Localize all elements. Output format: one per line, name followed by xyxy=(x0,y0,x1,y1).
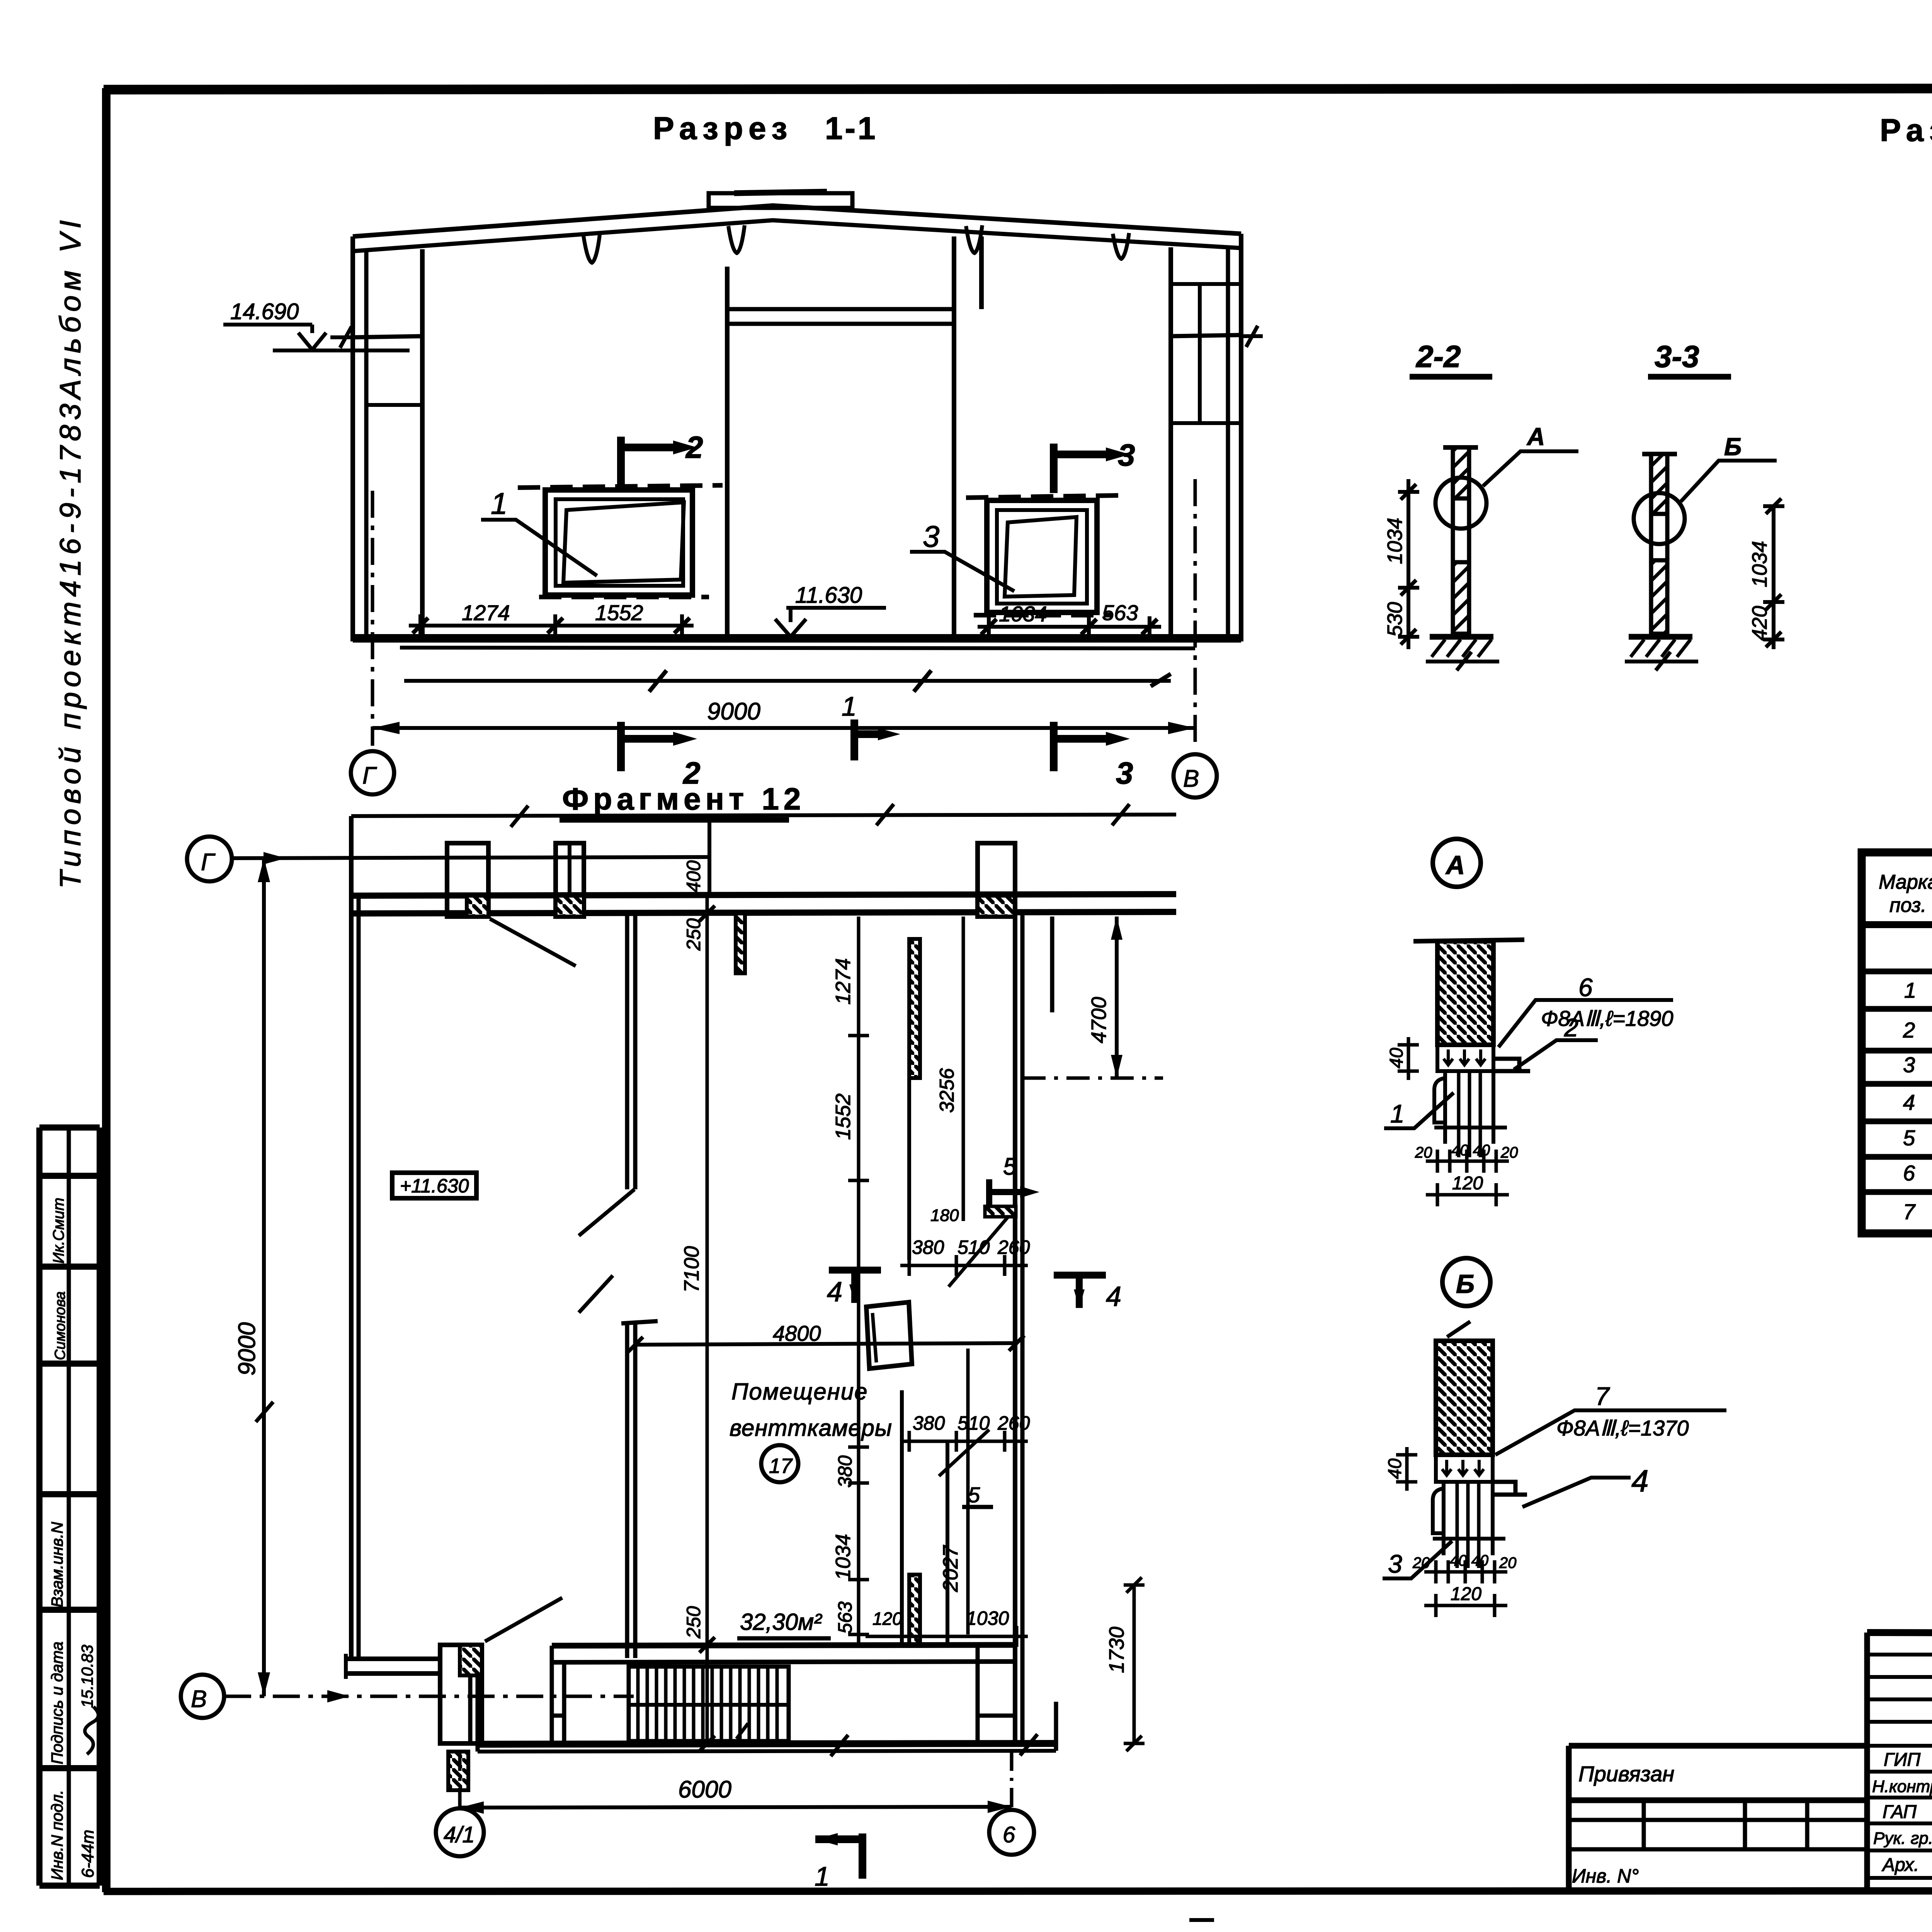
svg-text:32,30м²: 32,30м² xyxy=(740,1609,822,1635)
title underline xyxy=(560,817,789,823)
svg-text:40 40: 40 40 xyxy=(1451,1142,1490,1159)
right wall panel joint xyxy=(1171,284,1241,423)
right wall bottom edge xyxy=(1054,1702,1058,1751)
2-2 wall hatched lower xyxy=(1453,562,1469,634)
svg-text:380: 380 xyxy=(913,1412,945,1434)
axis В dashdot xyxy=(224,1695,634,1698)
floor slab bottom line xyxy=(400,648,1195,648)
svg-text:40: 40 xyxy=(1385,1458,1405,1479)
dim 6000 arrows xyxy=(460,1801,1012,1814)
section flag 2 top xyxy=(621,437,673,486)
detail B leader 7 xyxy=(1495,1410,1726,1455)
left attachment box Привязан xyxy=(1569,1746,1867,1891)
left margin rotated album text xyxy=(54,220,87,889)
3-3 wall middle xyxy=(1651,514,1667,560)
2-2 leader to А xyxy=(1483,451,1578,486)
table outer box xyxy=(1862,852,1932,1233)
dim 9000 vertical line xyxy=(262,858,266,1696)
svg-text:Н.контр.: Н.контр. xyxy=(1872,1777,1932,1796)
top wall lower line xyxy=(351,912,1176,913)
dim 4800 line xyxy=(635,1343,1017,1345)
left wall lintel line xyxy=(366,403,422,407)
window 3 inner frame xyxy=(997,510,1087,604)
section flag 3 bottom xyxy=(1054,722,1106,771)
svg-text:7: 7 xyxy=(1903,1199,1916,1224)
detail A dim 120 line xyxy=(1426,1183,1509,1206)
roof rib notch 1 xyxy=(583,235,600,263)
detail A mortar joint band xyxy=(1437,1045,1493,1071)
axis circle 4/1 xyxy=(436,1808,484,1856)
right wall outer line xyxy=(1239,234,1243,641)
bottom wall break slashes xyxy=(831,1734,1037,1756)
room circle 17 xyxy=(761,1445,798,1482)
section flag 2 bottom arrow xyxy=(673,732,697,746)
svg-text:Б: Б xyxy=(1724,433,1742,461)
axis В arrow xyxy=(327,1690,350,1702)
dim row A line xyxy=(900,1255,1028,1276)
leader to shaft xyxy=(939,1430,989,1476)
svg-text:1034: 1034 xyxy=(1748,541,1771,587)
svg-text:Инв. N°: Инв. N° xyxy=(1572,1865,1639,1887)
roof vent small cap xyxy=(734,192,827,193)
section flag 3 bottom arrow xyxy=(1106,732,1130,746)
detail A angle step xyxy=(1493,1059,1530,1071)
corridor end tick xyxy=(344,1654,348,1679)
svg-text:4700: 4700 xyxy=(1087,997,1111,1043)
dim row B line xyxy=(900,1431,1028,1452)
svg-text:Симонова: Симонова xyxy=(52,1291,68,1360)
svg-text:563: 563 xyxy=(1102,600,1138,625)
3-3 right dim arrows xyxy=(1766,498,1781,647)
svg-text:Марка: Марка xyxy=(1879,871,1932,893)
svg-text:3256: 3256 xyxy=(936,1068,958,1113)
dim chain left slashes xyxy=(413,618,690,633)
axis 4/1 dash xyxy=(458,1752,462,1807)
svg-text:20: 20 xyxy=(1499,1554,1517,1571)
svg-text:Типовой проект416-9-1783Альбом: Типовой проект416-9-1783Альбом VI xyxy=(54,220,87,889)
leader 3 to window3 xyxy=(910,552,1014,591)
svg-text:1730: 1730 xyxy=(1105,1627,1128,1673)
svg-text:Арх.: Арх. xyxy=(1881,1855,1919,1875)
column 2 inner line xyxy=(568,843,571,917)
chain x2222 ticks xyxy=(848,1036,869,1634)
dim 9000 line xyxy=(372,726,1195,730)
bottom wall upper band line2 xyxy=(552,1662,1015,1662)
svg-text:4/1: 4/1 xyxy=(444,1822,475,1847)
dim 2027 line xyxy=(966,1349,970,1634)
attachment grid xyxy=(1569,1800,1867,1849)
detail B top break xyxy=(1447,1321,1470,1337)
svg-text:Подпись и дата: Подпись и дата xyxy=(48,1641,66,1764)
right axis break mark xyxy=(1241,326,1263,347)
axis circle В xyxy=(1173,754,1217,798)
window 1 dashed axis bottom xyxy=(539,595,709,599)
table row lines xyxy=(1862,971,1932,1192)
dim 4800 slashes xyxy=(628,1335,1024,1352)
svg-text:15.10.83: 15.10.83 xyxy=(78,1645,96,1708)
svg-text:9000: 9000 xyxy=(234,1322,260,1376)
svg-text:250: 250 xyxy=(683,918,704,951)
roof bottom chord xyxy=(353,220,1241,251)
detail B leader 3 xyxy=(1383,1541,1452,1578)
left column face xyxy=(420,249,425,640)
flag 1 bottom arrow xyxy=(815,1833,838,1845)
top-right column 3 xyxy=(978,843,1015,917)
svg-text:563: 563 xyxy=(834,1601,856,1634)
svg-text:Инв.N подл.: Инв.N подл. xyxy=(48,1790,66,1880)
dim 9000 arrows xyxy=(258,858,270,1696)
svg-text:+11.630: +11.630 xyxy=(400,1175,469,1197)
dim 1730 line xyxy=(1133,1585,1136,1743)
svg-text:1274: 1274 xyxy=(462,600,510,625)
svg-text:260: 260 xyxy=(997,1412,1030,1434)
2-2 left dim line xyxy=(1406,479,1410,649)
svg-text:2: 2 xyxy=(1564,1013,1578,1042)
svg-text:1: 1 xyxy=(1390,1099,1405,1128)
level mark 14.690 line xyxy=(223,325,312,333)
elevation box +11.630 xyxy=(392,1173,476,1198)
axis circle Г xyxy=(351,751,394,794)
detail B dim 120 line xyxy=(1424,1594,1507,1617)
3-3 wall hatched upper xyxy=(1651,454,1667,514)
detail B hatched column xyxy=(1436,1341,1493,1455)
dim chain left vertical line xyxy=(706,896,709,1743)
left axis break mark xyxy=(330,327,353,348)
detail circle Б xyxy=(1442,1258,1490,1306)
column 2 hatch xyxy=(556,896,584,917)
left wall ledge line xyxy=(353,336,422,337)
dim 400 vertical stub xyxy=(707,816,711,896)
stamp signature squiggle xyxy=(85,1707,99,1754)
detail A bottom dim ticks xyxy=(1437,1150,1496,1173)
svg-text:5: 5 xyxy=(968,1483,980,1507)
border bottom xyxy=(104,1891,1932,1891)
svg-text:ГАП: ГАП xyxy=(1883,1802,1917,1822)
door leaf inner xyxy=(872,1313,876,1362)
detail A leader 1 xyxy=(1384,1093,1454,1128)
level mark line and arrow xyxy=(775,608,886,637)
svg-text:120: 120 xyxy=(872,1609,902,1629)
right pilaster stub xyxy=(1050,917,1054,1012)
2-2 detail circle on wall xyxy=(1435,478,1486,529)
svg-text:510: 510 xyxy=(957,1412,990,1434)
svg-text:2027: 2027 xyxy=(939,1545,962,1592)
svg-text:3: 3 xyxy=(1903,1053,1915,1077)
dim 1730 ticks xyxy=(1124,1577,1145,1751)
right wall ledge line xyxy=(1171,335,1241,336)
svg-text:40: 40 xyxy=(1386,1048,1407,1068)
interior shaft right wall xyxy=(954,236,981,638)
svg-text:А: А xyxy=(1526,423,1545,451)
dim 3256 line xyxy=(962,917,965,1221)
svg-text:1034: 1034 xyxy=(999,602,1047,626)
sign grid verticals xyxy=(1867,1633,1932,1891)
column 3 hatch xyxy=(978,896,1015,917)
svg-text:7100: 7100 xyxy=(680,1246,703,1293)
svg-text:Ик.Смит: Ик.Смит xyxy=(50,1198,67,1264)
svg-text:Б: Б xyxy=(1456,1269,1475,1299)
3-3 base hatch xyxy=(1631,639,1690,657)
2-2 wall hatched upper xyxy=(1453,447,1469,498)
svg-text:В: В xyxy=(191,1686,207,1713)
stairs mid line xyxy=(629,1703,789,1707)
detail B bottom dim line xyxy=(1424,1570,1507,1574)
detail A dim 40 xyxy=(1398,1037,1419,1080)
svg-text:180: 180 xyxy=(930,1206,959,1225)
svg-text:1: 1 xyxy=(491,486,507,520)
flag 4 left arrow xyxy=(849,1284,860,1303)
stair left wall xyxy=(552,1646,564,1743)
detail B joint arrows xyxy=(1442,1460,1484,1475)
leader 1 to window1 xyxy=(481,520,597,576)
3-3 right dim line xyxy=(1772,506,1776,649)
roof rib notch 3 xyxy=(966,225,982,253)
detail B lower stem xyxy=(1433,1482,1493,1555)
dim 9000 arrows xyxy=(372,722,1195,734)
svg-text:4800: 4800 xyxy=(773,1321,821,1345)
svg-text:Привязан: Привязан xyxy=(1578,1762,1674,1786)
upper-left column 2 xyxy=(556,843,584,917)
svg-text:1030: 1030 xyxy=(966,1607,1009,1629)
detail A stem bottom line xyxy=(1434,1126,1507,1129)
shaft wall line right xyxy=(946,1441,949,1645)
svg-text:1034: 1034 xyxy=(832,1534,855,1580)
axis Г dashdot xyxy=(371,491,374,746)
2-2 base line xyxy=(1430,634,1493,640)
svg-text:А: А xyxy=(1445,850,1465,880)
detail B rebar verticals xyxy=(1457,1482,1479,1568)
left stamp grid xyxy=(39,1128,100,1886)
ledge line left of wall xyxy=(273,349,410,352)
roof rib notch 4 xyxy=(1113,233,1129,259)
bottom wall upper band line1 xyxy=(552,1645,1015,1646)
bottom-left column outline xyxy=(440,1645,482,1743)
svg-text:380: 380 xyxy=(912,1236,944,1258)
svg-text:Фрагмент 12: Фрагмент 12 xyxy=(562,782,805,816)
detail A joint arrows xyxy=(1444,1049,1485,1065)
left wall outer line xyxy=(350,236,355,641)
shaft hatched wall lower xyxy=(909,1575,920,1645)
interior wall restart tick xyxy=(621,1321,658,1323)
interior wall left of shaft xyxy=(725,267,730,638)
small dash under titleblock xyxy=(1189,1918,1214,1922)
svg-text:В: В xyxy=(1183,765,1199,792)
window 1 inner frame xyxy=(556,499,683,586)
3-3 base line xyxy=(1629,634,1692,640)
svg-text:400: 400 xyxy=(683,860,704,893)
svg-text:Ф8АⅢ,ℓ=1890: Ф8АⅢ,ℓ=1890 xyxy=(1541,1006,1673,1031)
section flag 3 top arrow xyxy=(1106,447,1130,461)
detail B mortar joint band xyxy=(1436,1455,1493,1482)
svg-text:Разрез: Разрез xyxy=(653,111,793,146)
svg-text:Разрез: Разрез xyxy=(1880,113,1932,148)
roof top chord xyxy=(353,206,1241,236)
area underline xyxy=(737,1636,831,1641)
2-2 left dim slashes xyxy=(1401,484,1416,645)
flag 4 right arrow xyxy=(1074,1289,1085,1308)
shaft top beam xyxy=(727,309,954,324)
floor slab thick line xyxy=(353,634,1241,643)
column 1 hatch xyxy=(467,896,488,917)
interior stub wall hatched xyxy=(736,913,745,973)
svg-text:Ф8АⅢ,ℓ=1370: Ф8АⅢ,ℓ=1370 xyxy=(1556,1416,1689,1440)
2-2 base dim line xyxy=(1426,660,1499,663)
flag 1 top arrow xyxy=(878,728,900,740)
section flag 1 bottom xyxy=(815,1833,862,1879)
svg-text:1034: 1034 xyxy=(1383,518,1406,564)
3-3 wall hatched lower xyxy=(1651,560,1667,634)
2-2 left dim ticks xyxy=(1398,492,1419,637)
stairs treads xyxy=(638,1667,777,1741)
svg-text:1: 1 xyxy=(815,1861,830,1891)
svg-text:530: 530 xyxy=(1383,602,1406,637)
table header bottom line xyxy=(1862,921,1932,928)
svg-text:Помещение: Помещение xyxy=(731,1379,868,1405)
svg-text:17: 17 xyxy=(769,1454,793,1478)
sign grid empty rows xyxy=(1867,1655,1932,1746)
detail B leader 4 xyxy=(1522,1478,1631,1507)
dim chain x2222 xyxy=(857,917,861,1645)
svg-text:20: 20 xyxy=(1500,1144,1518,1161)
2-2 base break slash xyxy=(1457,652,1471,670)
3-3 leader to Б xyxy=(1681,461,1777,502)
window 1 dashed axis top xyxy=(518,485,723,488)
dim 6000 line xyxy=(460,1807,1012,1808)
corridor lines to left xyxy=(346,1659,440,1673)
2-2 base hatch xyxy=(1432,639,1492,657)
flag 5 mid arrowline xyxy=(1020,1186,1039,1198)
chain ticks xyxy=(697,896,718,1743)
sign grid name rows xyxy=(1867,1772,1932,1878)
svg-text:4: 4 xyxy=(827,1277,842,1308)
dim 4700 vertical xyxy=(1115,917,1119,1078)
bottom wall second line xyxy=(478,1751,1056,1752)
svg-text:9000: 9000 xyxy=(707,698,760,725)
svg-text:6-44т: 6-44т xyxy=(78,1830,97,1878)
dim chain right slashes xyxy=(981,619,1157,634)
plan top thin line xyxy=(351,815,1176,816)
svg-text:6000: 6000 xyxy=(678,1776,731,1803)
detail A top line xyxy=(1413,940,1524,941)
border left xyxy=(102,88,111,1892)
section flag 3 top xyxy=(1054,444,1106,493)
svg-text:2: 2 xyxy=(1903,1018,1915,1042)
3-3 base dim line xyxy=(1625,660,1698,663)
dim 120/1030 line xyxy=(866,1626,1028,1647)
svg-text:420: 420 xyxy=(1748,606,1771,641)
window 3 sash quad xyxy=(1005,517,1077,597)
stairs outline xyxy=(629,1667,789,1741)
dashdot right mid xyxy=(1022,1077,1163,1080)
right wall outer xyxy=(1013,843,1017,1743)
dim chain left ticks xyxy=(420,614,682,637)
window 3 outer frame xyxy=(987,500,1097,612)
detail B dim 40 xyxy=(1396,1447,1417,1491)
bottom wall left vertical xyxy=(470,1673,478,1752)
svg-text:3: 3 xyxy=(1118,438,1135,472)
bottom wall thick line xyxy=(478,1743,1056,1744)
3-3 detail circle on wall xyxy=(1634,493,1685,544)
axis В dashdot xyxy=(1194,479,1197,750)
section flag 4 right xyxy=(1054,1275,1106,1308)
detail B bottom dim ticks xyxy=(1436,1560,1495,1583)
detail A bottom dim line xyxy=(1426,1160,1509,1163)
right wall inner line xyxy=(1226,247,1230,641)
interior wall upper segment xyxy=(627,913,635,1189)
window 3 dashed axis bottom xyxy=(974,613,1113,617)
svg-text:1552: 1552 xyxy=(595,600,643,625)
3-3 wall top tick xyxy=(1642,452,1677,456)
detail A leader 6 xyxy=(1498,1000,1673,1047)
right bottom column xyxy=(978,1645,1015,1743)
svg-text:вентткамеры: вентткамеры xyxy=(730,1415,892,1441)
svg-text:5: 5 xyxy=(1903,1126,1915,1150)
svg-text:Г: Г xyxy=(201,849,216,876)
svg-text:Рук. гр.: Рук. гр. xyxy=(1873,1829,1932,1848)
axis В circle xyxy=(181,1675,224,1718)
lower chain line with breaks xyxy=(404,679,1171,683)
shaft wall line left xyxy=(900,1390,904,1645)
lower chain break marks xyxy=(649,670,1171,692)
svg-text:20: 20 xyxy=(1415,1144,1432,1161)
svg-text:4: 4 xyxy=(1106,1281,1121,1312)
column 1 leader diagonal xyxy=(490,919,576,966)
2-2 wall top tick xyxy=(1443,445,1478,450)
border top xyxy=(104,88,1932,90)
section flag 2 top arrow xyxy=(673,440,697,454)
left wall inner line xyxy=(364,250,369,641)
3-3 base break slash xyxy=(1656,652,1670,670)
svg-text:3: 3 xyxy=(1388,1549,1402,1578)
svg-text:14.690: 14.690 xyxy=(230,299,299,324)
svg-text:4: 4 xyxy=(1903,1090,1915,1114)
bottom-left column hatch xyxy=(460,1645,482,1675)
duct wall hatched band xyxy=(909,939,920,1078)
svg-text:ГИП: ГИП xyxy=(1884,1750,1920,1770)
svg-text:6: 6 xyxy=(1903,1161,1915,1185)
2-2 wall middle xyxy=(1453,498,1469,562)
svg-text:3-3: 3-3 xyxy=(1655,339,1699,374)
axis 6 dash xyxy=(1010,1752,1014,1808)
section flag 1 top xyxy=(854,719,878,760)
svg-text:6: 6 xyxy=(1003,1822,1015,1847)
svg-text:7: 7 xyxy=(1595,1382,1610,1410)
svg-text:Г: Г xyxy=(362,762,377,789)
hatch piece mid xyxy=(985,1206,1016,1217)
svg-text:1: 1 xyxy=(842,691,857,721)
dim 9000 break xyxy=(256,1402,273,1422)
svg-text:1552: 1552 xyxy=(832,1094,855,1140)
leader to hatch mid xyxy=(949,1216,1009,1287)
svg-text:1-1: 1-1 xyxy=(825,111,878,146)
title 3-3 underline xyxy=(1648,374,1731,380)
svg-text:40 40: 40 40 xyxy=(1450,1552,1488,1569)
interior wall lower segment xyxy=(627,1323,635,1658)
window 3 dashed axis top xyxy=(966,495,1121,498)
svg-text:380: 380 xyxy=(834,1455,856,1488)
left wall inner xyxy=(357,896,361,1660)
column leader diagonal xyxy=(485,1598,562,1641)
top line break slashes xyxy=(511,804,1129,827)
svg-text:11.630: 11.630 xyxy=(795,583,862,608)
section flag 4 left xyxy=(829,1270,881,1303)
roof vent box xyxy=(709,193,852,208)
right column face xyxy=(1168,247,1173,640)
window 1 outer frame xyxy=(545,490,692,595)
svg-text:поз.: поз. xyxy=(1889,894,1927,917)
svg-text:Взам.инв.N: Взам.инв.N xyxy=(48,1522,66,1607)
svg-text:260: 260 xyxy=(997,1236,1030,1258)
